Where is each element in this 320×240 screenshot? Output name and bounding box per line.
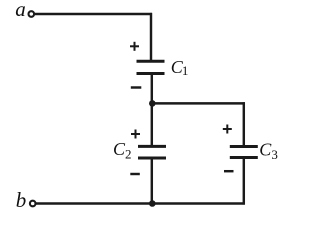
polarity + for C3 <box>223 125 232 134</box>
polarity + for C1 <box>130 42 139 51</box>
wire: bottom node to bottom-right corner <box>152 202 245 204</box>
terminal b <box>30 201 36 207</box>
capacitor C2 <box>138 146 166 158</box>
wire: right corner down to C3 top plate <box>243 102 245 146</box>
polarity - for C2 <box>130 173 140 175</box>
svg-text:C1: C1 <box>171 57 189 78</box>
wire: terminal a to top-right corner <box>35 13 152 15</box>
node: junction of C1, C2, C3 <box>149 100 156 107</box>
wire: C3 bottom plate to bottom wire <box>243 158 245 205</box>
svg-text:C2: C2 <box>113 139 132 162</box>
capacitor C3 <box>230 147 258 158</box>
wire: terminal b to bottom node <box>36 202 152 204</box>
polarity + for C2 <box>131 130 140 139</box>
capacitor C1 <box>137 61 165 73</box>
svg-text:b: b <box>16 188 26 212</box>
svg-text:C3: C3 <box>259 139 278 162</box>
polarity - for C1 <box>131 86 142 88</box>
wire: top corner down to C1 top plate <box>150 13 152 61</box>
svg-text:a: a <box>15 0 26 21</box>
wire: middle node down to C2 top plate <box>151 103 153 146</box>
terminal a <box>29 11 35 17</box>
wire: C2 bottom plate to bottom node <box>151 158 153 204</box>
polarity - for C3 <box>224 170 234 172</box>
node: bottom junction <box>149 200 156 207</box>
wire: C1 bottom plate to middle node <box>151 74 153 104</box>
wire: middle node to right corner <box>152 102 245 104</box>
